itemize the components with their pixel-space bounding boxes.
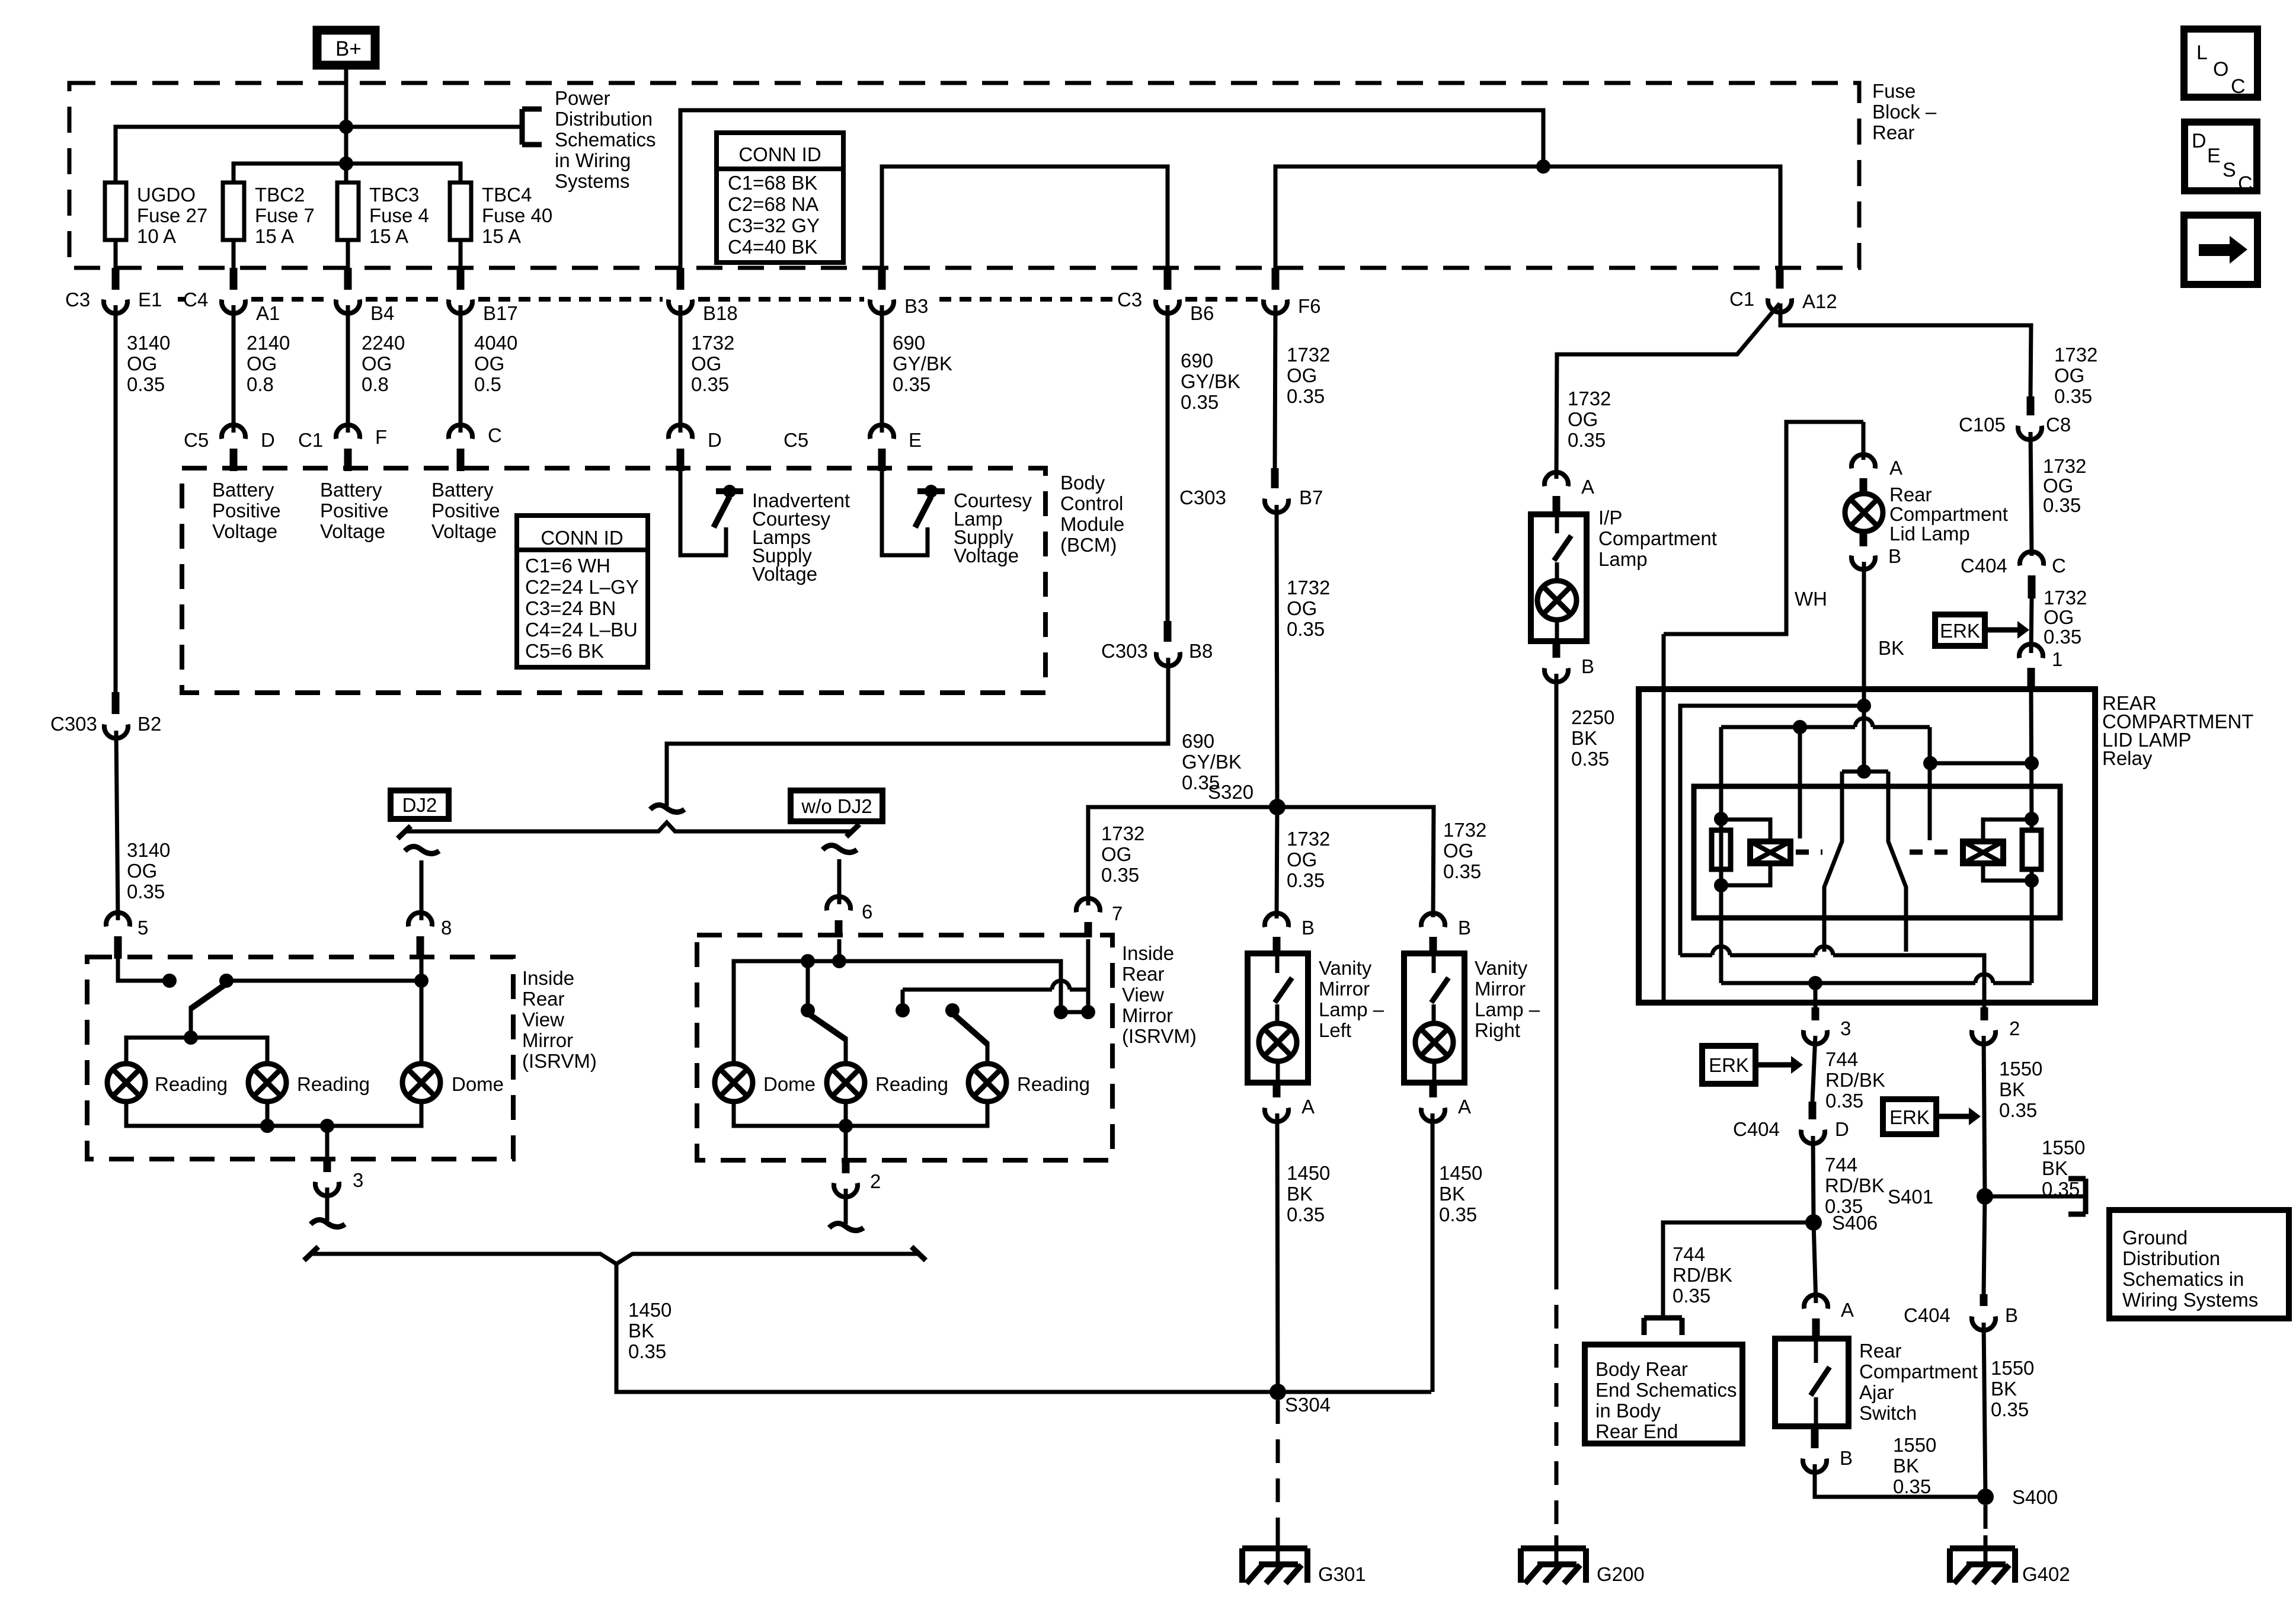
svg-text:Fuse 4: Fuse 4 [369, 204, 429, 226]
connector ISRVM pin 3 [315, 1159, 339, 1196]
label pin C [2052, 555, 2066, 577]
label circuit 1732 OG 0.35 (pin7) [1101, 822, 1144, 886]
label circuit 1732 OG 0.35 (B18) [691, 332, 734, 395]
relay armature [1824, 772, 1906, 952]
svg-text:O: O [2213, 58, 2228, 81]
wire S406 branch to body rear end [1663, 1222, 1814, 1318]
svg-text:Rear: Rear [1889, 484, 1932, 505]
reference box Body Rear End Schematics [1585, 1345, 1742, 1443]
svg-text:C4=40 BK: C4=40 BK [728, 236, 817, 258]
svg-text:Fuse 27: Fuse 27 [137, 204, 207, 226]
svg-text:OG: OG [362, 353, 392, 375]
svg-text:B: B [1581, 655, 1594, 677]
relay actuation dashes left [1796, 850, 1822, 855]
label Inadvertent Courtesy Lamps Supply Voltage [752, 489, 850, 585]
label circuit 744 RD/BK 0.35 (branch) [1673, 1243, 1732, 1307]
svg-text:GY/BK: GY/BK [893, 353, 952, 375]
svg-text:C105: C105 [1959, 414, 2006, 436]
svg-text:OG: OG [1287, 364, 1317, 386]
svg-text:0.35: 0.35 [691, 373, 729, 395]
svg-text:OG: OG [1443, 840, 1473, 862]
svg-text:Inside: Inside [1122, 942, 1174, 964]
relay actuation dashes right [1910, 850, 1958, 855]
svg-text:1732: 1732 [2054, 344, 2097, 366]
svg-text:Positive: Positive [431, 500, 500, 521]
wire relay3 to C404 D [1812, 1036, 1815, 1102]
svg-text:BK: BK [1893, 1455, 1919, 1477]
label S400 [2012, 1486, 2058, 1508]
wire F6/A12 bus [1275, 167, 1780, 268]
relay inner frame wire [1662, 634, 1666, 1003]
relay wire contact to pin1 [1930, 761, 2032, 766]
label pin B6 [1190, 302, 1214, 324]
node junction bottom bus 2 [320, 1119, 334, 1133]
relay row B wire [1721, 974, 2032, 983]
wire bus B+ feed 1 [116, 127, 522, 183]
svg-text:7: 7 [1112, 902, 1123, 924]
svg-text:B17: B17 [483, 302, 518, 324]
node contact dot [162, 974, 177, 988]
wire link bottom [1061, 1010, 1088, 1014]
svg-text:Rear: Rear [1859, 1340, 1902, 1362]
wire E1 to C303 B2 [114, 305, 118, 706]
svg-text:C4: C4 [183, 289, 208, 311]
svg-text:WH: WH [1795, 588, 1827, 610]
relay hop line [1721, 718, 1930, 727]
connector lid lamp pin B [1851, 532, 1875, 569]
svg-text:OG: OG [247, 353, 277, 375]
label pin 8 [441, 917, 452, 939]
wire B18 to BCM D(inadvertent) [679, 305, 683, 433]
label connector C303 (B7) [1179, 486, 1226, 508]
svg-text:(ISRVM): (ISRVM) [522, 1050, 597, 1072]
svg-text:OG: OG [1287, 849, 1317, 870]
wire S401 branch to ground distribution [1985, 1195, 2086, 1199]
svg-text:1732: 1732 [1568, 388, 1611, 409]
label connector C1 at A12 [1729, 288, 1754, 310]
wire bus B+ feed 2 [234, 164, 461, 183]
svg-text:C3: C3 [1117, 289, 1142, 311]
fuse F40 TBC4 [450, 183, 471, 240]
svg-text:L: L [2196, 41, 2208, 64]
svg-text:C303: C303 [1179, 486, 1226, 508]
wire A1 to BCM D [232, 305, 236, 433]
wire lamp to box bottom [1555, 620, 1559, 641]
label WH [1795, 588, 1827, 610]
connector ajar switch pin A [1804, 1295, 1828, 1340]
svg-text:(ISRVM): (ISRVM) [1122, 1025, 1197, 1047]
svg-text:Mirror: Mirror [522, 1029, 573, 1051]
label Battery Positive Voltage (1) [212, 479, 281, 542]
node splice S304 [1269, 1384, 1286, 1400]
svg-text:Right: Right [1475, 1019, 1520, 1041]
wire lamp feed bus right [734, 961, 1061, 1064]
node junction bus1/B+ [339, 120, 353, 134]
wire A12 to C105 C8 [1780, 303, 2031, 396]
svg-text:Fuse 40: Fuse 40 [482, 204, 552, 226]
label pin 1 [2052, 648, 2062, 670]
svg-text:BK: BK [1878, 637, 1904, 659]
node junction bottom bus 1 [260, 1119, 274, 1133]
label I/P Compartment Lamp [1598, 507, 1717, 570]
wire combiner line [312, 1254, 917, 1264]
label circuit 690 GY/BK 0.35 (B8) [1182, 730, 1242, 793]
wire B3/B6 bus [882, 167, 1168, 268]
label pin E1 [138, 289, 162, 311]
label circuit 1732 OG 0.35 (A12) [2054, 344, 2097, 407]
wire pin6 into box [837, 939, 842, 961]
svg-text:744: 744 [1825, 1048, 1858, 1070]
svg-text:C: C [2238, 172, 2253, 195]
wire B18 bus riser [680, 110, 1543, 268]
wire fuse leg E1 [114, 240, 118, 270]
svg-text:1732: 1732 [2043, 455, 2086, 477]
connector C303-B8 [1156, 621, 1180, 666]
reference box ERK (3) [1883, 1099, 1936, 1134]
wire fuse leg B4 [346, 240, 350, 270]
ground G301 [1242, 1535, 1307, 1583]
svg-text:D: D [261, 429, 275, 451]
label pin B18 [703, 302, 738, 324]
label circuit 1450 BK 0.35 [1287, 1162, 1330, 1225]
svg-text:Dome: Dome [763, 1073, 816, 1095]
svg-text:S400: S400 [2012, 1486, 2058, 1508]
relay left contact [1798, 727, 1802, 838]
svg-text:1550: 1550 [1991, 1357, 2034, 1379]
svg-text:Block –: Block – [1872, 101, 1937, 123]
wire C404 C to relay pin 1 [2031, 598, 2032, 653]
label S320 [1208, 781, 1253, 803]
label circuit 1450 BK 0.35 (combined) [628, 1299, 671, 1362]
lamp dome right [715, 1064, 753, 1102]
node junction link/pin7 a [1054, 1005, 1068, 1019]
label S401 [1888, 1186, 1933, 1208]
svg-text:2240: 2240 [362, 332, 405, 354]
connector vanity right pin A [1421, 1083, 1445, 1122]
table CONN ID (fuse block) [717, 133, 843, 263]
IP lamp switch [1554, 514, 1571, 581]
connector B4 pin [336, 268, 360, 313]
connector BCM C5-E pin [870, 425, 894, 471]
svg-text:Ajar: Ajar [1859, 1381, 1894, 1403]
component vanity mirror lamp left box [1248, 953, 1308, 1083]
svg-text:CONN ID: CONN ID [738, 143, 821, 165]
svg-text:F: F [375, 426, 387, 448]
label pin B7 [1299, 486, 1323, 508]
relay coil right loops [1983, 820, 2032, 881]
svg-text:C: C [2231, 75, 2246, 98]
svg-text:A: A [1581, 476, 1594, 498]
label circuit 2240 OG 0.8 (B4) [362, 332, 405, 395]
svg-text:BK: BK [1571, 727, 1597, 749]
svg-text:OG: OG [1287, 597, 1317, 619]
svg-text:8: 8 [441, 917, 452, 939]
svg-text:BK: BK [1287, 1183, 1313, 1205]
svg-text:C: C [2052, 555, 2066, 577]
component rear compartment ajar switch box [1775, 1339, 1849, 1426]
svg-text:Rear: Rear [1122, 963, 1165, 985]
lamp vanity right [1415, 1023, 1453, 1061]
label G402 [2022, 1563, 2070, 1585]
svg-text:0.35: 0.35 [1101, 864, 1139, 886]
svg-text:3140: 3140 [127, 839, 170, 861]
wire fuse leg A1 [232, 240, 236, 270]
label pin A1 [256, 302, 280, 324]
svg-text:1450: 1450 [1287, 1162, 1330, 1184]
node junction resistor top R [2025, 812, 2039, 826]
svg-text:Positive: Positive [320, 500, 389, 521]
wire lamp bottom bus [126, 1102, 421, 1126]
fuse F7 TBC2 [223, 183, 244, 240]
svg-text:E1: E1 [138, 289, 162, 311]
svg-text:G402: G402 [2022, 1563, 2070, 1585]
svg-text:B6: B6 [1190, 302, 1214, 324]
svg-text:0.35: 0.35 [1287, 869, 1325, 891]
svg-text:in Wiring: in Wiring [555, 149, 631, 171]
wire switch bus to dome [226, 979, 421, 983]
svg-text:Left: Left [1319, 1019, 1351, 1041]
svg-text:C1=6 WH: C1=6 WH [525, 555, 610, 577]
label fuse TBC3 [369, 184, 429, 247]
svg-text:Fuse 7: Fuse 7 [255, 204, 315, 226]
label pin A [1889, 457, 1902, 479]
svg-text:DJ2: DJ2 [402, 794, 437, 816]
label circuit 4040 OG 0.5 (B17) [474, 332, 517, 395]
label connector C404 (B) [1904, 1304, 1950, 1326]
wire lamp top bus [126, 1038, 267, 1064]
svg-text:UGDO: UGDO [137, 184, 196, 206]
svg-text:B: B [1840, 1447, 1853, 1469]
svg-text:Positive: Positive [212, 500, 281, 521]
svg-text:C: C [488, 424, 502, 446]
node splice S401 [1977, 1188, 1993, 1205]
vanity right switch [1431, 953, 1448, 1023]
label S304 [1285, 1394, 1331, 1416]
svg-text:B: B [2005, 1304, 2018, 1326]
connector B17 pin [449, 268, 472, 313]
svg-text:0.35: 0.35 [127, 373, 165, 395]
node junction resistor bottom R [2025, 873, 2039, 888]
svg-text:1732: 1732 [691, 332, 734, 354]
label pin B8 [1189, 640, 1213, 662]
label circuit 1732 OG 0.35 (IP) [1568, 388, 1611, 451]
wire DJ2 drop to pin 8 [420, 860, 424, 920]
label Dome [452, 1073, 504, 1095]
mirror switch right 2 (contact+pivot+blade) [896, 990, 987, 1064]
label pin 3 [1840, 1017, 1851, 1039]
svg-text:Lamp –: Lamp – [1319, 998, 1384, 1020]
label pin C [488, 424, 502, 446]
svg-text:1732: 1732 [1287, 344, 1330, 366]
reference box Ground Distribution Schematics [2109, 1210, 2289, 1318]
label box DJ2 [391, 790, 449, 819]
svg-text:690: 690 [1181, 350, 1213, 372]
wire F6 to C303 B7 [1275, 305, 1275, 468]
relay coil left loops [1721, 820, 1770, 885]
label Power Distribution Schematics [555, 87, 656, 192]
wire S400 to G402 dashed [1984, 1505, 1988, 1538]
legend box LOC [2184, 29, 2257, 98]
relay pin1 column lower [2030, 869, 2034, 983]
svg-text:C404: C404 [1961, 555, 2007, 577]
wire fuse leg B17 [459, 240, 463, 270]
svg-text:B18: B18 [703, 302, 738, 324]
label connector C3 at E1 [65, 289, 90, 311]
svg-text:End Schematics: End Schematics [1595, 1379, 1737, 1401]
connector relay pin 3 [1803, 1007, 1827, 1044]
svg-text:Dome: Dome [452, 1073, 504, 1095]
label circuit 744 RD/BK 0.35 (below D) [1825, 1154, 1885, 1217]
relay wire loop left [1680, 706, 1864, 955]
wire S320 to pin 7 [1088, 807, 1277, 905]
node junction bottom right [839, 1119, 853, 1133]
svg-text:D: D [1835, 1118, 1849, 1140]
svg-text:OG: OG [2044, 606, 2074, 628]
wire C404 D to S406 [1813, 1136, 1814, 1222]
mirror switch left (pivot+blade) [191, 974, 234, 1038]
svg-text:690: 690 [1182, 730, 1214, 752]
svg-text:Battery: Battery [320, 479, 382, 501]
svg-text:1450: 1450 [1439, 1162, 1482, 1184]
label circuit 3140 OG 0.35 (mirror) [127, 839, 170, 902]
svg-text:View: View [522, 1009, 564, 1030]
wire S320 to vanity left B [1277, 807, 1277, 918]
wire B7 to S320 [1277, 505, 1277, 807]
svg-text:2: 2 [2009, 1017, 2020, 1039]
svg-text:1550: 1550 [2042, 1137, 2085, 1158]
label Inside Rear View Mirror (ISRVM) left [522, 967, 597, 1072]
connector C404-C [2020, 552, 2044, 598]
svg-text:1732: 1732 [1287, 577, 1330, 598]
svg-text:A: A [1302, 1096, 1315, 1118]
label connector C1 (F) [298, 429, 323, 451]
wire option split line [404, 822, 852, 831]
wire reading2 bottom [266, 1102, 270, 1126]
label circuit 1550 BK 0.35 (relay 2) [1999, 1058, 2042, 1121]
label pin 6 [862, 901, 872, 923]
label pin 5 [137, 917, 148, 939]
label pin F6 [1298, 295, 1321, 317]
relay right contact [1928, 727, 1932, 840]
label connector C404 (D) [1733, 1118, 1780, 1140]
connector IP lamp pin B [1544, 641, 1568, 682]
wire pin7 into box [1086, 939, 1091, 1012]
label connector C4 at A1 [183, 289, 208, 311]
connector lid lamp pin A [1851, 454, 1875, 494]
label circuit 1550 BK 0.35 (ajar) [1893, 1434, 1936, 1497]
component IP compartment lamp box [1531, 514, 1587, 641]
svg-text:690: 690 [893, 332, 925, 354]
svg-text:0.35: 0.35 [1439, 1204, 1477, 1225]
label circuit 744 RD/BK 0.35 (relay 3) [1825, 1048, 1885, 1112]
svg-text:Lamp –: Lamp – [1475, 998, 1540, 1020]
svg-text:Voltage: Voltage [752, 563, 817, 585]
svg-text:RD/BK: RD/BK [1825, 1069, 1885, 1091]
wire S401 to C404 B [1984, 1196, 1985, 1294]
wire C8 to C404 C [2030, 432, 2032, 556]
svg-text:Body: Body [1060, 472, 1105, 494]
label fuse TBC4 [482, 184, 552, 247]
svg-text:OG: OG [474, 353, 504, 375]
component vanity mirror lamp right box [1404, 953, 1464, 1083]
label Vanity Mirror Lamp Right [1475, 957, 1540, 1041]
svg-text:0.35: 0.35 [1287, 618, 1325, 640]
label pin A [1841, 1299, 1854, 1321]
node junction link/pin7 b [1081, 1005, 1095, 1019]
wire lid lamp B to relay [1862, 562, 1866, 769]
svg-text:B2: B2 [137, 713, 161, 735]
label box w/o DJ2 [791, 790, 882, 821]
wire A12 to IP lamp [1556, 303, 1780, 479]
node junction left contact [1793, 720, 1807, 734]
wire reading1 bottom [124, 1102, 129, 1126]
svg-text:BK: BK [2042, 1157, 2068, 1179]
table CONN ID (BCM) [517, 516, 648, 667]
label circuit 1732 OG 0.35 (relay feed) [2044, 587, 2087, 648]
label pin B [2005, 1304, 2018, 1326]
node junction pin6 [832, 954, 846, 968]
wire lamp to box bottom [1432, 1061, 1437, 1083]
svg-text:Vanity: Vanity [1475, 957, 1528, 979]
svg-text:6: 6 [862, 901, 872, 923]
svg-text:Fuse: Fuse [1872, 80, 1916, 102]
svg-text:TBC3: TBC3 [369, 184, 419, 206]
arrow ERK 3 [1936, 1108, 1981, 1125]
label connector C303 (B8) [1101, 640, 1148, 662]
label pin B3 [904, 295, 928, 317]
svg-text:S320: S320 [1208, 781, 1253, 803]
label G200 [1597, 1563, 1645, 1585]
node junction blade/lamp bus [184, 1030, 198, 1045]
wire break curl (DJ2 drop) [405, 846, 439, 853]
label Inside Rear View Mirror (ISRVM) right [1122, 942, 1197, 1047]
module ISRVM right dashed box [697, 935, 1112, 1160]
label circuit 690 GY/BK 0.35 (B3) [893, 332, 952, 395]
connector C105-C8 [2018, 396, 2042, 440]
node junction armature feed [1857, 764, 1871, 779]
label pin D [1835, 1118, 1849, 1140]
svg-text:Battery: Battery [431, 479, 494, 501]
label circuit 1550 BK 0.35 (S401 branch) [2042, 1137, 2085, 1200]
label pin A [1302, 1096, 1315, 1118]
connector A12 pin [1768, 268, 1792, 312]
connector vanity left pin A [1265, 1083, 1288, 1122]
module BCM dashed box [182, 468, 1045, 693]
connector C404-B [1972, 1294, 1996, 1330]
label Body Control Module (BCM) [1060, 472, 1124, 556]
svg-text:1732: 1732 [1287, 828, 1330, 850]
svg-text:C1=68 BK: C1=68 BK [728, 172, 817, 194]
label connector C105 [1959, 414, 2006, 436]
svg-text:2250: 2250 [1571, 706, 1614, 728]
arrow ERK 2 [1755, 1056, 1803, 1074]
connector vanity left pin B [1265, 913, 1288, 955]
label Vanity Mirror Lamp Left [1319, 957, 1384, 1041]
wire break curl (pin3) [311, 1219, 345, 1227]
svg-text:OG: OG [1101, 843, 1131, 865]
label pin B [1458, 917, 1471, 939]
svg-text:C5: C5 [184, 429, 209, 451]
label connector C404 (C) [1961, 555, 2007, 577]
label fuse TBC2 [255, 184, 315, 247]
svg-text:A1: A1 [256, 302, 280, 324]
connector A1 pin [222, 268, 245, 313]
svg-text:Rear: Rear [1872, 121, 1915, 143]
svg-text:View: View [1122, 984, 1164, 1006]
wire to pin 3 [325, 1126, 330, 1160]
connector BCM C pin [449, 425, 472, 471]
relay core box [1694, 786, 2060, 918]
